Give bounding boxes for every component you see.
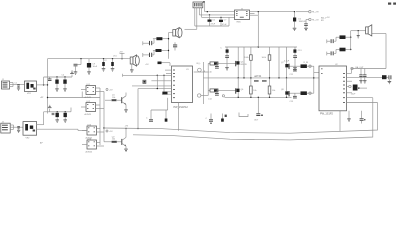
- svg-text:47uF: 47uF: [211, 24, 216, 26]
- svg-text:100k: 100k: [244, 57, 248, 59]
- svg-text:uA741: uA741: [254, 75, 262, 78]
- svg-text:10k: 10k: [112, 97, 115, 99]
- svg-text:A 4N25: A 4N25: [85, 96, 92, 99]
- svg-text:10k: 10k: [253, 90, 256, 92]
- svg-text:10k: 10k: [272, 90, 275, 92]
- svg-text:10uF: 10uF: [93, 66, 98, 68]
- svg-text:100k: 100k: [262, 57, 266, 59]
- svg-text:10uF: 10uF: [351, 93, 356, 95]
- svg-text:10k: 10k: [112, 139, 115, 141]
- svg-text:R_IN: R_IN: [304, 62, 309, 64]
- svg-text:1N4148: 1N4148: [299, 21, 307, 23]
- svg-text:HI_+9V: HI_+9V: [312, 12, 319, 14]
- svg-text:HI_+5V: HI_+5V: [312, 20, 319, 22]
- svg-text:PW_1S1P2: PW_1S1P2: [320, 113, 334, 116]
- svg-text:PW_1S1P12: PW_1S1P12: [174, 106, 189, 109]
- svg-text:A 4N25: A 4N25: [86, 150, 93, 153]
- svg-text:47uF: 47uF: [222, 24, 227, 26]
- svg-text:A 4N25: A 4N25: [85, 113, 92, 116]
- svg-text:0.1uF: 0.1uF: [284, 60, 290, 62]
- svg-text:BA_OUT: BA_OUT: [356, 66, 365, 69]
